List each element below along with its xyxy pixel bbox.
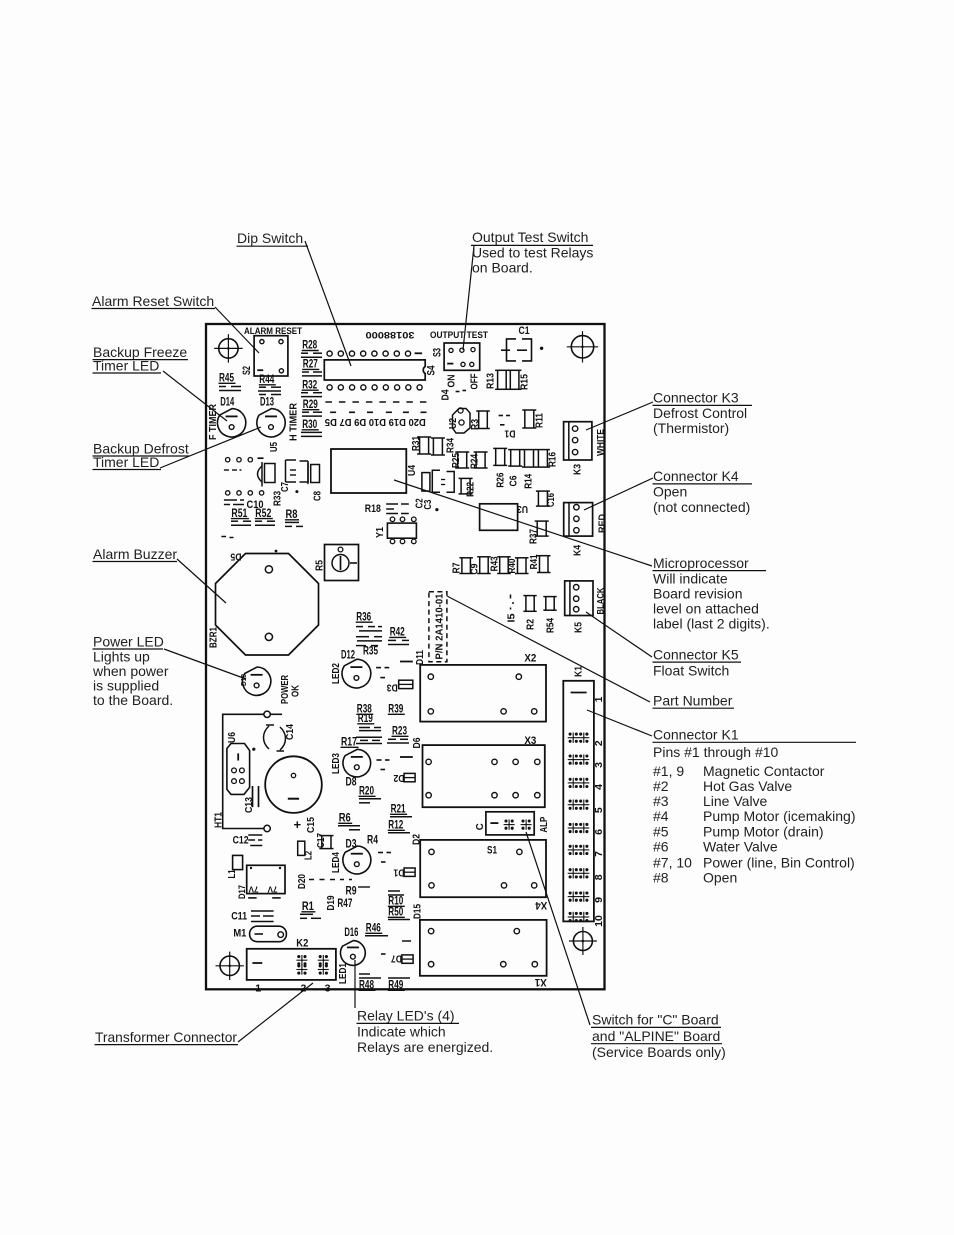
svg-text:D20 D19 D10 D9 D7 D5: D20 D19 D10 D9 D7 D5 bbox=[325, 416, 426, 428]
svg-text:R4: R4 bbox=[367, 833, 378, 847]
resistor R34 bbox=[431, 437, 445, 439]
connector K5 bbox=[565, 581, 593, 616]
leader line to part number label bbox=[447, 596, 650, 702]
svg-text:D17: D17 bbox=[237, 885, 247, 899]
dashes right of LED2 bbox=[376, 667, 381, 669]
svg-text:D11: D11 bbox=[415, 650, 426, 665]
svg-text:R30: R30 bbox=[302, 417, 317, 431]
svg-text:Board revision: Board revision bbox=[653, 586, 743, 602]
via dots row bbox=[226, 458, 230, 462]
svg-text:C11: C11 bbox=[231, 911, 247, 923]
svg-text:R22: R22 bbox=[466, 482, 477, 497]
svg-text:X3: X3 bbox=[524, 735, 536, 747]
svg-text:R49: R49 bbox=[388, 978, 403, 992]
svg-text:U6: U6 bbox=[227, 732, 238, 743]
svg-text:2: 2 bbox=[593, 740, 605, 746]
leader line to backup freeze timer LED D14 bbox=[163, 371, 227, 421]
leader line to power LED D18 bbox=[164, 649, 246, 679]
svg-text:C: C bbox=[475, 823, 486, 830]
resistor R54 bbox=[543, 596, 556, 598]
svg-text:Open: Open bbox=[653, 484, 687, 500]
svg-text:LED3: LED3 bbox=[331, 753, 342, 774]
svg-text:on Board.: on Board. bbox=[472, 260, 533, 276]
svg-text:C15: C15 bbox=[306, 817, 317, 833]
svg-text:C14: C14 bbox=[285, 724, 296, 740]
part number label P/N 2A1410-01 bbox=[429, 592, 447, 662]
inductor L2 bbox=[298, 841, 305, 855]
dip switch pad row top bbox=[327, 351, 332, 356]
svg-text:Power (line, Bin Control): Power (line, Bin Control) bbox=[703, 855, 855, 871]
potentiometer R5 bbox=[325, 545, 359, 581]
svg-text:Pins #1 through #10: Pins #1 through #10 bbox=[653, 744, 779, 760]
leader line to backup defrost timer LED D13 bbox=[160, 427, 261, 468]
svg-text:D6: D6 bbox=[412, 737, 423, 748]
svg-text:R29: R29 bbox=[303, 397, 318, 411]
svg-text:4: 4 bbox=[593, 784, 605, 790]
bridge rectifier D17 bbox=[247, 865, 285, 893]
leader line to output test switch S3 bbox=[463, 246, 474, 350]
svg-text:7V: 7V bbox=[248, 885, 258, 895]
svg-text:R14: R14 bbox=[523, 473, 534, 488]
svg-text:Will indicate: Will indicate bbox=[653, 571, 728, 587]
svg-text:R24: R24 bbox=[469, 454, 480, 469]
capacitor C13 bbox=[252, 786, 254, 807]
capacitor C17 bbox=[319, 835, 333, 837]
svg-text:Line Valve: Line Valve bbox=[703, 793, 768, 809]
svg-text:C9: C9 bbox=[470, 563, 481, 574]
svg-text:Y1: Y1 bbox=[375, 527, 386, 538]
svg-text:(not connected): (not connected) bbox=[653, 499, 750, 515]
svg-text:D8: D8 bbox=[346, 775, 357, 789]
svg-text:D13: D13 bbox=[260, 395, 274, 409]
diode D21 dashes bbox=[510, 595, 512, 599]
svg-text:#5: #5 bbox=[653, 824, 669, 840]
svg-text:X2: X2 bbox=[524, 653, 536, 665]
svg-text:Timer LED: Timer LED bbox=[93, 454, 159, 470]
svg-text:#2: #2 bbox=[653, 778, 669, 794]
svg-text:D20: D20 bbox=[297, 874, 308, 889]
dash right of LED1 bbox=[381, 953, 386, 955]
svg-text:S4: S4 bbox=[426, 365, 438, 376]
leader line to connector K4 bbox=[584, 478, 653, 510]
svg-text:to the Board.: to the Board. bbox=[93, 692, 173, 708]
switch S3 output test bbox=[444, 343, 480, 370]
svg-text:D3: D3 bbox=[386, 682, 397, 693]
svg-text:R33: R33 bbox=[273, 491, 284, 506]
connector K1 bbox=[563, 681, 594, 922]
svg-text:label (last 2 digits).: label (last 2 digits). bbox=[653, 616, 770, 632]
resistor R11 bbox=[522, 409, 536, 411]
svg-text:1: 1 bbox=[593, 696, 605, 702]
svg-text:C6: C6 bbox=[508, 475, 519, 486]
dashes left bbox=[221, 536, 226, 538]
svg-text:R3: R3 bbox=[470, 419, 481, 430]
resistor R7 bbox=[459, 557, 473, 559]
inductor L1 bbox=[233, 855, 243, 869]
svg-text:OK: OK bbox=[290, 684, 301, 697]
mounting hole top-left bbox=[219, 339, 238, 358]
leader line to alarm buzzer BZR1 bbox=[177, 559, 226, 603]
voltage regulator U6 bbox=[227, 744, 250, 795]
svg-text:3: 3 bbox=[593, 762, 605, 768]
leader line to connector K1 bbox=[587, 710, 652, 736]
svg-text:R5: R5 bbox=[315, 560, 326, 571]
svg-text:U3: U3 bbox=[517, 503, 528, 514]
svg-text:C3: C3 bbox=[423, 499, 434, 509]
svg-text:#3: #3 bbox=[653, 793, 669, 809]
svg-text:R45: R45 bbox=[219, 371, 234, 385]
crystal Y1 bbox=[387, 523, 416, 538]
svg-text:R36: R36 bbox=[356, 609, 371, 623]
svg-text:+: + bbox=[294, 817, 302, 832]
leader line to relay LED LED1 bbox=[354, 960, 356, 1008]
svg-text:Connector K4: Connector K4 bbox=[653, 468, 739, 484]
svg-text:D1: D1 bbox=[393, 867, 404, 878]
transistor U2 bbox=[453, 409, 471, 434]
svg-text:LED2: LED2 bbox=[331, 663, 342, 684]
svg-text:D1: D1 bbox=[504, 428, 515, 439]
relay X4 bbox=[420, 840, 546, 897]
svg-text:2: 2 bbox=[301, 983, 307, 995]
svg-text:C13: C13 bbox=[244, 797, 255, 813]
svg-text:I5: I5 bbox=[507, 613, 518, 622]
capacitor C8 bbox=[311, 465, 320, 483]
svg-text:K1: K1 bbox=[573, 666, 584, 677]
svg-text:30188000: 30188000 bbox=[366, 329, 415, 340]
svg-text:R28: R28 bbox=[302, 338, 317, 352]
leader line to connector K3 bbox=[586, 402, 653, 430]
leader line to dip switch bbox=[305, 241, 351, 366]
svg-text:#1, 9: #1, 9 bbox=[653, 763, 684, 779]
svg-text:R41: R41 bbox=[529, 554, 540, 569]
svg-text:L2: L2 bbox=[304, 851, 315, 860]
svg-text:R12: R12 bbox=[388, 818, 403, 832]
resistor R2 bbox=[523, 595, 536, 597]
resistor R16 bbox=[536, 449, 550, 451]
svg-text:#4: #4 bbox=[653, 808, 669, 824]
svg-text:S2: S2 bbox=[241, 366, 253, 375]
svg-text:C1: C1 bbox=[519, 325, 530, 337]
switch S2 alarm reset bbox=[254, 336, 288, 376]
resistor R41 bbox=[537, 555, 551, 557]
svg-text:R21: R21 bbox=[391, 802, 406, 816]
microprocessor U4 bbox=[331, 449, 406, 493]
svg-text:R11: R11 bbox=[535, 413, 546, 428]
capacitor group below R34 bbox=[422, 473, 430, 492]
svg-text:R23: R23 bbox=[392, 724, 407, 738]
svg-text:Connector K1: Connector K1 bbox=[653, 727, 739, 743]
dashes right of LED3 bbox=[377, 759, 382, 761]
svg-text:RED: RED bbox=[597, 514, 608, 533]
svg-text:7: 7 bbox=[593, 851, 605, 857]
svg-text:D2: D2 bbox=[393, 772, 404, 783]
svg-text:9: 9 bbox=[593, 897, 605, 903]
svg-text:S3: S3 bbox=[432, 348, 444, 357]
svg-text:Dip Switch: Dip Switch bbox=[237, 230, 303, 246]
svg-text:L1: L1 bbox=[227, 869, 238, 878]
wire stub left of X2 bbox=[400, 661, 413, 663]
svg-text:Magnetic Contactor: Magnetic Contactor bbox=[703, 763, 825, 779]
dashes bbox=[224, 469, 229, 471]
svg-text:D16: D16 bbox=[344, 925, 358, 939]
svg-text:C8: C8 bbox=[313, 491, 324, 501]
svg-text:5: 5 bbox=[593, 807, 605, 813]
svg-text:R25: R25 bbox=[451, 453, 462, 468]
leader line to alarm reset switch S2 bbox=[215, 307, 259, 353]
svg-text:Timer LED: Timer LED bbox=[93, 358, 159, 374]
wire stub left of X3 bbox=[400, 756, 413, 758]
svg-text:Alarm Buzzer: Alarm Buzzer bbox=[93, 546, 177, 562]
svg-text:Open: Open bbox=[703, 870, 737, 886]
via dots row 2 bbox=[226, 491, 230, 495]
svg-text:R18: R18 bbox=[365, 503, 381, 515]
dashes near R3 bbox=[499, 415, 503, 417]
PCB board outline bbox=[206, 324, 605, 989]
svg-text:BLACK: BLACK bbox=[596, 587, 607, 614]
capacitor C14 bbox=[264, 726, 270, 749]
svg-text:R16: R16 bbox=[548, 452, 559, 467]
svg-text:Power LED: Power LED bbox=[93, 634, 164, 650]
svg-text:R51: R51 bbox=[231, 506, 247, 520]
svg-text:D12: D12 bbox=[341, 648, 355, 662]
svg-text:D5: D5 bbox=[230, 551, 241, 562]
svg-text:H TIMER: H TIMER bbox=[289, 402, 300, 441]
svg-text:Microprocessor: Microprocessor bbox=[653, 555, 749, 571]
svg-text:K5: K5 bbox=[574, 622, 585, 633]
svg-text:Hot Gas Valve: Hot Gas Valve bbox=[703, 778, 792, 794]
svg-text:R26: R26 bbox=[495, 472, 506, 487]
svg-text:and "ALPINE" Board: and "ALPINE" Board bbox=[592, 1028, 720, 1044]
svg-text:Alarm Reset Switch: Alarm Reset Switch bbox=[92, 293, 214, 309]
connector K4 bbox=[564, 503, 593, 536]
IC U3 bbox=[480, 504, 518, 531]
svg-text:HT1: HT1 bbox=[213, 812, 224, 828]
svg-text:R47: R47 bbox=[337, 896, 352, 910]
svg-text:D4: D4 bbox=[441, 389, 452, 400]
alarm buzzer BZR1 octagon bbox=[216, 554, 319, 656]
capacitor C7 group bbox=[258, 466, 263, 482]
svg-text:R27: R27 bbox=[303, 357, 318, 371]
svg-text:Relay LED's (4): Relay LED's (4) bbox=[357, 1008, 455, 1024]
svg-text:D14: D14 bbox=[220, 395, 234, 409]
leader line to transformer connector K2 bbox=[238, 983, 313, 1042]
relay X3 bbox=[423, 745, 545, 807]
svg-text:X4: X4 bbox=[535, 899, 548, 911]
LED3 D8 bbox=[343, 749, 371, 777]
dip switch S4 body bbox=[324, 360, 425, 380]
svg-text:D7: D7 bbox=[391, 953, 402, 964]
resistor R22 bbox=[459, 477, 473, 479]
dashes right of LED4 bbox=[378, 852, 383, 854]
connector K3 bbox=[564, 422, 592, 460]
svg-text:(Thermistor): (Thermistor) bbox=[653, 420, 729, 436]
svg-text:R46: R46 bbox=[366, 921, 381, 935]
capacitor C16 bbox=[536, 490, 550, 492]
svg-text:LED4: LED4 bbox=[331, 852, 342, 873]
svg-text:R17: R17 bbox=[341, 735, 357, 749]
svg-text:R20: R20 bbox=[359, 784, 374, 798]
resistor R14 bbox=[522, 449, 536, 451]
svg-text:Switch for "C" Board: Switch for "C" Board bbox=[592, 1012, 719, 1028]
svg-text:3: 3 bbox=[325, 983, 331, 995]
svg-text:OUTPUT TEST: OUTPUT TEST bbox=[430, 330, 488, 341]
svg-text:D19: D19 bbox=[326, 895, 337, 910]
svg-text:R54: R54 bbox=[545, 618, 556, 633]
svg-text:K3: K3 bbox=[573, 464, 584, 475]
svg-text:M1: M1 bbox=[233, 928, 246, 940]
capacitor C6 bbox=[508, 449, 522, 451]
svg-text:R8: R8 bbox=[286, 507, 298, 521]
svg-text:F TIMER: F TIMER bbox=[208, 403, 219, 440]
heatsink HT1 outline bbox=[264, 711, 270, 717]
svg-text:R6: R6 bbox=[339, 811, 351, 825]
svg-text:R40: R40 bbox=[507, 558, 518, 573]
svg-text:level on attached: level on attached bbox=[653, 601, 759, 617]
svg-text:Defrost Control: Defrost Control bbox=[653, 405, 747, 421]
svg-text:R31: R31 bbox=[411, 436, 422, 451]
resistor R3 bbox=[476, 410, 490, 412]
svg-text:K4: K4 bbox=[573, 545, 584, 556]
svg-text:R1: R1 bbox=[302, 899, 314, 913]
svg-text:U2: U2 bbox=[448, 418, 459, 429]
svg-text:R43: R43 bbox=[489, 556, 500, 571]
svg-text:10: 10 bbox=[593, 915, 605, 927]
switch S1 C/ALPINE bbox=[486, 812, 534, 835]
short dash row bbox=[330, 411, 336, 413]
resistor R37 bbox=[535, 520, 549, 522]
svg-text:OFF: OFF bbox=[470, 374, 481, 390]
svg-text:U4: U4 bbox=[407, 465, 418, 476]
relay X1 bbox=[420, 920, 547, 976]
svg-text:R48: R48 bbox=[359, 978, 374, 992]
svg-text:Transformer Connector: Transformer Connector bbox=[95, 1029, 237, 1045]
svg-text:BZR1: BZR1 bbox=[209, 627, 220, 648]
K1 pin clusters bbox=[569, 733, 572, 736]
svg-text:Relays are energized.: Relays are energized. bbox=[357, 1039, 493, 1055]
svg-text:C17: C17 bbox=[316, 833, 327, 848]
svg-text:C16: C16 bbox=[546, 493, 557, 507]
svg-text:R37: R37 bbox=[529, 529, 540, 544]
svg-text:WHITE: WHITE bbox=[596, 429, 607, 456]
svg-text:R50: R50 bbox=[388, 905, 403, 919]
svg-text:#8: #8 bbox=[653, 870, 669, 886]
svg-text:(Service Boards only): (Service Boards only) bbox=[592, 1044, 726, 1060]
electrolytic capacitor C15 bbox=[265, 756, 322, 813]
svg-text:Connector K5: Connector K5 bbox=[653, 647, 739, 663]
svg-text:X1: X1 bbox=[535, 976, 547, 988]
dip switch pad row bottom bbox=[327, 385, 332, 390]
svg-text:ON: ON bbox=[447, 375, 458, 388]
mounting hole bottom-left bbox=[220, 956, 239, 975]
mounting hole top-right bbox=[571, 336, 593, 358]
svg-text:R13: R13 bbox=[486, 373, 497, 389]
svg-text:D15: D15 bbox=[413, 904, 424, 919]
svg-text:S1: S1 bbox=[487, 845, 497, 857]
resistor R13 bbox=[495, 369, 509, 371]
capacitor C9 bbox=[477, 556, 491, 558]
svg-text:ALP: ALP bbox=[539, 816, 550, 832]
resistor R15 bbox=[508, 369, 522, 371]
resistor R31 bbox=[417, 436, 431, 438]
svg-text:#7, 10: #7, 10 bbox=[653, 855, 692, 871]
svg-text:7V: 7V bbox=[267, 885, 277, 895]
svg-text:Used to test Relays: Used to test Relays bbox=[472, 245, 593, 261]
svg-text:R15: R15 bbox=[520, 374, 531, 390]
svg-text:R2: R2 bbox=[526, 619, 537, 630]
svg-text:6: 6 bbox=[593, 829, 605, 835]
svg-text:Output Test Switch: Output Test Switch bbox=[472, 229, 588, 245]
svg-text:R7: R7 bbox=[452, 562, 463, 573]
svg-text:R52: R52 bbox=[255, 506, 271, 520]
svg-text:D18: D18 bbox=[241, 674, 248, 686]
leader line to microprocessor U4 bbox=[394, 480, 652, 566]
relay X2 bbox=[420, 665, 546, 722]
svg-text:U5: U5 bbox=[269, 442, 280, 452]
svg-text:C12: C12 bbox=[233, 835, 249, 847]
svg-text:LED1: LED1 bbox=[338, 963, 349, 984]
svg-text:P/N 2A1410-01: P/N 2A1410-01 bbox=[434, 593, 446, 659]
svg-text:R19: R19 bbox=[358, 711, 373, 725]
mounting hole bottom-right bbox=[573, 932, 592, 951]
svg-text:R44: R44 bbox=[259, 372, 274, 386]
svg-text:Water Valve: Water Valve bbox=[703, 839, 778, 855]
resistor R24 bbox=[474, 451, 488, 453]
svg-text:R35: R35 bbox=[363, 644, 378, 658]
svg-text:R32: R32 bbox=[302, 377, 317, 391]
svg-text:Pump Motor (drain): Pump Motor (drain) bbox=[703, 824, 824, 840]
svg-text:C7: C7 bbox=[280, 482, 291, 492]
leader line to connector K5 bbox=[586, 612, 652, 657]
svg-text:Indicate which: Indicate which bbox=[357, 1024, 446, 1040]
resistor R43 bbox=[497, 556, 511, 558]
resistor R25 bbox=[455, 451, 469, 453]
svg-text:Part Number: Part Number bbox=[653, 693, 733, 709]
svg-text:8: 8 bbox=[593, 874, 605, 880]
svg-text:Connector K3: Connector K3 bbox=[653, 390, 739, 406]
svg-text:Pump Motor (icemaking): Pump Motor (icemaking) bbox=[703, 808, 856, 824]
power LED D18 bbox=[242, 667, 270, 695]
svg-text:#6: #6 bbox=[653, 839, 669, 855]
svg-text:R34: R34 bbox=[446, 438, 457, 453]
svg-text:R42: R42 bbox=[390, 625, 405, 639]
dashed row below dip switch bbox=[325, 401, 426, 403]
svg-text:1: 1 bbox=[255, 983, 261, 995]
svg-text:K2: K2 bbox=[296, 938, 308, 950]
leader line to C/ALPINE switch bbox=[526, 832, 590, 1025]
svg-text:Float Switch: Float Switch bbox=[653, 663, 729, 679]
resistor R40 bbox=[515, 557, 529, 559]
resistor R26 bbox=[493, 447, 507, 449]
svg-text:R39: R39 bbox=[388, 702, 403, 716]
